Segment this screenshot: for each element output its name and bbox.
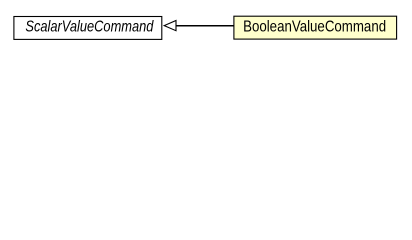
svg-text:ScalarValueCommand: ScalarValueCommand [25, 19, 154, 36]
background [0, 0, 412, 59]
inheritance arrowhead (hollow triangle) [164, 21, 176, 31]
class box ScalarValueCommand [14, 17, 162, 40]
svg-text:BooleanValueCommand: BooleanValueCommand [243, 19, 386, 36]
wire (inheritance connector) [176, 25, 234, 27]
class box BooleanValueCommand [234, 16, 397, 39]
